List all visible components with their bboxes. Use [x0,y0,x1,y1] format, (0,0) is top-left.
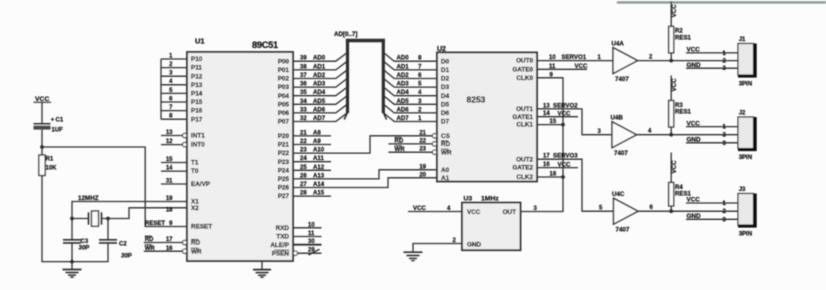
svg-text:A10: A10 [313,147,325,154]
wire U4B output to node [637,129,672,135]
svg-text:17: 17 [543,154,550,160]
node crystal right [106,217,110,221]
resistor R3 [669,76,692,135]
node J1 junction [669,59,673,63]
wire U3 GND [413,238,462,252]
node CLK1 junction [561,123,565,127]
svg-text:RD: RD [191,240,201,247]
svg-text:C1: C1 [56,118,64,124]
svg-text:16: 16 [166,246,173,252]
svg-text:A15: A15 [313,190,325,197]
svg-text:33: 33 [300,107,307,113]
svg-text:VCC: VCC [558,161,571,168]
svg-text:3PIN: 3PIN [739,232,752,238]
wire AD2 net [293,70,437,79]
U3 OUT pin number [534,206,538,212]
wire VCC to J3 pin 1 [686,197,738,207]
svg-text:11: 11 [308,231,315,237]
svg-text:D0: D0 [441,58,450,65]
svg-text:RD: RD [395,138,404,145]
svg-text:VCC: VCC [671,78,678,92]
svg-text:PSEN: PSEN [272,250,290,257]
wire A9 stub [293,138,331,145]
wire node to J3 pin 2 [671,209,738,215]
ground (left rail) [63,262,82,278]
svg-text:12: 12 [166,139,173,145]
wire A14 net to U2 A1 [293,178,437,188]
node crystal left [70,217,74,221]
resistor R2 [669,1,692,60]
wire AD5 net [293,96,437,105]
svg-text:U1: U1 [195,37,205,46]
power VCC (R3 pull-up, rotated) [671,78,678,92]
svg-text:P24: P24 [278,167,290,174]
svg-text:RD: RD [145,237,154,243]
svg-text:WR: WR [145,246,156,252]
svg-text:VCC: VCC [413,205,426,212]
svg-text:27: 27 [300,182,307,188]
svg-text:P27: P27 [278,193,290,200]
svg-text:22: 22 [300,139,307,145]
svg-text:R1: R1 [46,157,54,163]
U1 pin WR (16) [144,245,202,256]
svg-text:D5: D5 [441,101,450,108]
connector J3 3PIN [738,187,757,237]
power VCC (R2 pull-up, rotated) [671,4,678,18]
svg-text:P22: P22 [278,150,290,157]
svg-text:P10: P10 [191,56,203,63]
wire RD stub (U2) [388,137,432,144]
svg-text:39: 39 [300,56,307,62]
svg-text:+: + [51,118,55,124]
svg-text:VCC: VCC [467,209,481,216]
svg-text:30P: 30P [121,253,133,259]
svg-text:J1: J1 [739,37,746,43]
svg-text:AD[0..7]: AD[0..7] [334,31,357,38]
svg-text:WR: WR [395,146,406,153]
svg-text:AD2: AD2 [313,72,326,79]
svg-text:P12: P12 [191,73,203,80]
svg-text:VCC: VCC [558,110,571,117]
capacitor C3 [63,219,90,262]
U1 pins INT1 INT0 T1 T0 EA/VP [161,130,211,188]
wire GATE0 VCC stub [537,63,588,70]
svg-text:EA/VP: EA/VP [191,181,211,188]
resistor R4 [669,153,692,212]
svg-text:15: 15 [166,157,173,163]
wire A8 stub [293,129,331,136]
svg-text:AD5: AD5 [397,98,410,105]
wire CLK net (CLK0/CLK1/CLK2 to U3 OUT) [521,72,563,211]
wire GATE1 VCC stub [537,110,578,117]
svg-text:CS: CS [441,133,450,140]
svg-text:21: 21 [419,130,426,136]
wire RESET net (junction to U1 pin 9) [42,147,187,227]
wire A10 net to U2 CS [293,136,432,154]
svg-text:7407: 7407 [614,150,628,157]
svg-text:ALE/P: ALE/P [270,242,289,249]
IC U3 1MHz oscillator [462,195,521,250]
svg-text:14: 14 [166,166,173,172]
svg-text:P00: P00 [278,58,290,65]
label 12MHZ [78,195,99,202]
svg-text:AD6: AD6 [397,106,410,113]
svg-text:23: 23 [419,147,426,153]
svg-text:19: 19 [166,196,173,202]
svg-text:VCC: VCC [687,47,701,54]
svg-text:AD7: AD7 [397,115,410,122]
wire AD1 net [293,62,437,71]
svg-text:P14: P14 [191,91,203,98]
svg-text:RESET: RESET [145,221,165,227]
wire GATE2 VCC stub [537,161,578,168]
IC U2 8253 [432,46,537,182]
buffer U4A 7407 [612,41,638,84]
svg-text:VCC: VCC [671,160,678,174]
buffer U4C 7407 [612,191,638,234]
svg-text:A12: A12 [313,164,325,171]
svg-text:C2: C2 [119,241,127,247]
svg-text:P26: P26 [278,185,290,192]
U1 pin RD (17) [144,236,201,247]
svg-text:38: 38 [300,64,307,70]
node J2 junction [669,133,673,137]
resistor R1 [39,155,57,176]
svg-text:AD7: AD7 [313,115,326,122]
svg-text:25: 25 [300,165,307,171]
svg-text:1UF: 1UF [52,127,64,133]
U1 pin names RXD TXD ALE/P PSEN [270,225,289,257]
svg-text:P06: P06 [278,110,290,117]
wire C1 to junction [41,130,43,155]
svg-text:7407: 7407 [616,227,630,234]
svg-text:P04: P04 [278,93,290,100]
node J3 junction [669,209,673,213]
svg-text:P25: P25 [278,176,290,183]
wire VCC to J2 pin 1 [686,120,738,130]
svg-text:U3: U3 [464,195,473,202]
svg-text:P02: P02 [278,76,290,83]
svg-text:X2: X2 [191,205,199,212]
svg-text:A9: A9 [313,138,321,145]
wire A15 stub [293,190,331,197]
wire A12 stub [293,164,331,171]
U2 pin A0 A1 numbers [419,164,426,178]
wire ground rail [41,261,108,263]
svg-text:VCC: VCC [671,4,678,18]
svg-text:10K: 10K [46,166,58,172]
svg-text:P20: P20 [278,133,290,140]
svg-text:U4C: U4C [612,191,625,198]
svg-text:P03: P03 [278,84,290,91]
svg-text:CLK1: CLK1 [516,122,533,129]
wire GND to J2 pin 3 [686,137,738,147]
node reset junction [40,145,44,149]
svg-text:AD4: AD4 [313,89,326,96]
svg-text:8253: 8253 [467,95,486,105]
svg-text:U2: U2 [437,46,446,53]
svg-text:D4: D4 [441,93,450,100]
wire U4C output to node [638,205,671,211]
svg-text:18: 18 [550,172,557,178]
power VCC symbol (top left) [34,96,52,124]
svg-text:30P: 30P [79,245,91,251]
svg-text:23: 23 [300,148,307,154]
wire SERVO3 net (OUT2 to U4C) [537,153,614,212]
svg-text:AD5: AD5 [313,98,326,105]
svg-text:20: 20 [419,172,426,178]
wire SERVO2 net (OUT1 to U4B) [537,102,612,135]
svg-text:P15: P15 [191,99,203,106]
svg-text:13: 13 [166,130,173,136]
svg-text:AD2: AD2 [397,72,410,79]
wire WR stub (U2) [388,146,432,153]
svg-text:AD4: AD4 [397,89,410,96]
U1 pins RXD TXD ALE/P PSEN stubs [293,222,322,255]
svg-text:GND: GND [687,137,702,144]
svg-text:AD0: AD0 [313,55,326,62]
wire R1 to ground rail [41,176,43,262]
svg-text:VCC: VCC [687,197,701,204]
svg-text:SERVO1: SERVO1 [562,54,587,61]
wire AD3 net [293,79,437,88]
ground (U3) [404,252,423,260]
svg-text:J3: J3 [739,187,746,193]
ground (U1) [253,261,271,277]
svg-text:10: 10 [549,55,556,61]
svg-text:18: 18 [166,207,173,213]
svg-text:OUT1: OUT1 [516,106,533,113]
svg-text:D1: D1 [441,67,450,74]
wire node to J1 pin 2 [671,59,738,65]
svg-text:P13: P13 [191,82,203,89]
svg-text:10: 10 [308,222,315,228]
wire node to J2 pin 2 [671,133,738,139]
svg-text:17: 17 [166,237,173,243]
svg-text:36: 36 [300,82,307,88]
svg-text:30: 30 [308,239,315,245]
svg-text:15: 15 [550,119,557,125]
svg-text:34: 34 [300,99,307,105]
svg-text:AD1: AD1 [313,63,326,70]
capacitor C1 electrolytic [34,118,64,134]
svg-text:D2: D2 [441,76,450,83]
svg-text:RES1: RES1 [675,109,692,116]
svg-text:37: 37 [300,73,307,79]
wire A13 net to U2 A0 [293,170,437,180]
svg-text:U4B: U4B [611,115,624,122]
svg-text:INT0: INT0 [191,142,205,149]
svg-text:P23: P23 [278,159,290,166]
IC U1 89C51 [187,37,293,262]
svg-text:26: 26 [300,173,307,179]
buffer U4B 7407 [611,115,637,158]
U1 pin names X1 X2 RESET [166,196,212,231]
svg-text:P17: P17 [191,116,203,123]
svg-text:31: 31 [166,178,173,184]
svg-text:VCC: VCC [575,63,588,70]
connector J1 3PIN [738,37,757,87]
power VCC (R4 pull-up, rotated) [671,160,678,174]
svg-text:A0: A0 [441,167,450,174]
svg-text:AD3: AD3 [313,81,326,88]
svg-text:RES1: RES1 [675,35,692,42]
svg-text:1MHz: 1MHz [481,195,499,202]
wire U4A output to node [638,54,672,60]
svg-text:A8: A8 [313,129,321,136]
svg-text:AD0: AD0 [397,55,410,62]
svg-text:U4A: U4A [612,41,625,48]
svg-text:AD1: AD1 [397,63,410,70]
node CLK2 junction [561,175,565,179]
connector J2 3PIN [738,111,757,161]
capacitor C2 [99,219,133,262]
wire X1 net [72,202,187,219]
svg-text:SERVO3: SERVO3 [553,153,578,160]
svg-text:TXD: TXD [276,234,289,241]
svg-text:13: 13 [543,103,550,109]
svg-text:VCC: VCC [687,120,701,127]
svg-text:24: 24 [300,156,307,162]
wire AD4 net [293,88,437,97]
svg-text:RXD: RXD [276,225,290,232]
U1 pin names P00-P07 P20-P27 [278,58,290,200]
svg-text:11: 11 [549,64,556,70]
svg-text:INT1: INT1 [191,133,205,140]
svg-text:35: 35 [300,90,307,96]
node rail-C3 [70,260,74,264]
svg-text:T0: T0 [191,168,199,175]
svg-text:RESET: RESET [191,224,212,231]
wire U3 VCC stub [408,205,462,212]
svg-text:32: 32 [300,116,307,122]
svg-text:A13: A13 [313,172,325,179]
power rail VCC (top, cropped) [617,1,826,3]
svg-text:GND: GND [467,242,482,249]
svg-text:28: 28 [300,191,307,197]
wire AD6 net [293,105,437,114]
wire A11 stub [293,155,331,162]
U2 pin CS number [419,130,426,136]
wire VCC to J1 pin 1 [686,47,738,57]
svg-text:D6: D6 [441,110,450,117]
svg-text:OUT: OUT [503,209,517,216]
U1 pins P10-P17 (1-8) with tie wire [161,53,203,123]
svg-text:GND: GND [687,213,702,220]
wire GND to J3 pin 3 [686,213,738,223]
crystal Y1 12MHZ [72,211,102,226]
svg-text:3PIN: 3PIN [739,82,752,88]
svg-text:SERVO2: SERVO2 [553,102,578,109]
svg-text:AD6: AD6 [313,106,326,113]
svg-text:GATE1: GATE1 [512,114,533,121]
svg-text:CLK0: CLK0 [516,75,533,82]
svg-text:A11: A11 [313,155,324,162]
svg-text:RD: RD [441,141,451,148]
svg-text:89C51: 89C51 [252,40,278,50]
svg-text:A1: A1 [441,175,450,182]
svg-text:14: 14 [543,111,550,117]
bus AD[0..7] [334,31,387,119]
wire AD0 net [293,53,437,62]
wire AD7 net [293,113,437,122]
svg-text:D3: D3 [441,84,450,91]
svg-text:22: 22 [419,138,426,144]
wire SERVO1 net (OUT0 to U4A) [537,54,613,61]
svg-text:7407: 7407 [615,76,629,83]
svg-text:21: 21 [300,130,307,136]
svg-text:J2: J2 [739,111,746,117]
svg-text:AD3: AD3 [397,81,410,88]
svg-text:D7: D7 [441,119,450,126]
wire X2 net [102,208,188,219]
svg-text:19: 19 [419,164,426,170]
svg-text:GATE0: GATE0 [512,66,533,73]
svg-text:A14: A14 [313,181,325,188]
svg-text:WR: WR [441,149,452,156]
label RESET 9 [145,221,173,227]
svg-text:P01: P01 [278,67,290,74]
svg-text:OUT0: OUT0 [516,58,533,65]
svg-text:P21: P21 [278,142,290,149]
svg-text:P05: P05 [278,101,290,108]
svg-text:16: 16 [543,162,550,168]
svg-text:T1: T1 [191,160,199,167]
svg-text:WR: WR [191,248,202,255]
svg-text:P11: P11 [191,65,202,72]
svg-text:3PIN: 3PIN [739,155,752,161]
wire GND to J1 pin 3 [686,62,738,72]
svg-text:C3: C3 [81,239,89,245]
svg-text:GND: GND [687,62,702,69]
svg-text:CLK2: CLK2 [516,174,533,181]
svg-text:OUT2: OUT2 [516,156,533,163]
svg-text:P07: P07 [278,119,290,126]
svg-text:P16: P16 [191,108,203,115]
svg-text:GATE2: GATE2 [512,165,533,172]
